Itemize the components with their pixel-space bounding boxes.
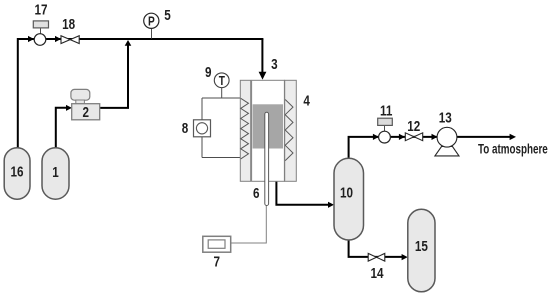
svg-text:14: 14 — [370, 265, 383, 282]
svg-text:P: P — [148, 14, 155, 28]
svg-text:9: 9 — [205, 64, 212, 81]
svg-text:5: 5 — [164, 7, 171, 24]
svg-text:To atmosphere: To atmosphere — [478, 141, 548, 157]
svg-text:13: 13 — [439, 109, 452, 126]
svg-text:2: 2 — [83, 104, 90, 121]
svg-text:18: 18 — [62, 15, 75, 32]
svg-text:16: 16 — [10, 163, 23, 180]
svg-text:6: 6 — [253, 184, 260, 201]
svg-text:11: 11 — [380, 102, 393, 119]
svg-text:4: 4 — [303, 92, 310, 109]
svg-text:8: 8 — [182, 120, 189, 137]
svg-text:7: 7 — [213, 253, 220, 270]
svg-text:15: 15 — [415, 238, 428, 255]
svg-text:1: 1 — [52, 164, 59, 181]
svg-text:3: 3 — [271, 56, 278, 73]
svg-text:17: 17 — [34, 1, 47, 18]
svg-text:T: T — [219, 74, 225, 88]
svg-text:10: 10 — [340, 184, 353, 201]
svg-text:12: 12 — [407, 118, 420, 135]
